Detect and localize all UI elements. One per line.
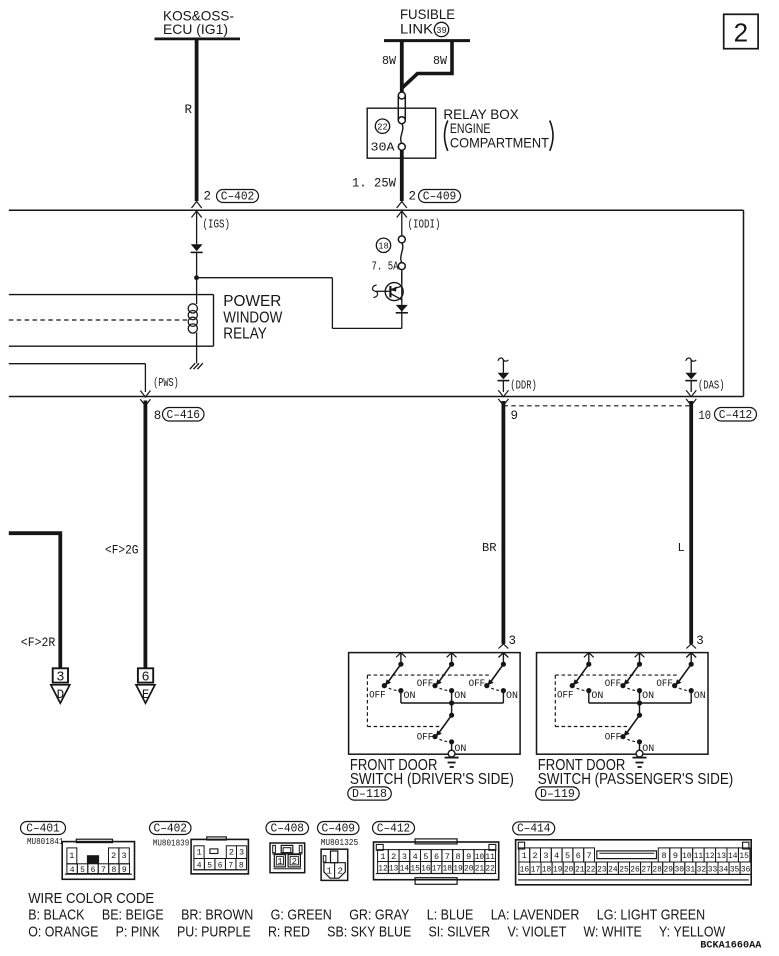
relay box name parentheses [445,121,554,151]
connector C-412 drawing [374,839,499,884]
joint connector D triangle [51,685,70,703]
svg-text:30A: 30A [371,141,396,155]
connector C-408 label [266,821,309,835]
svg-text:13: 13 [717,851,727,861]
svg-text:WINDOW: WINDOW [223,309,283,326]
fuse rating 7. 5A [372,260,400,274]
svg-text:18: 18 [443,864,453,874]
svg-text:C–412: C–412 [719,408,753,422]
diode D-DAS [685,373,697,381]
switch pole 3 blade [484,664,506,693]
wire relay coil to ground [196,346,198,363]
wire color label 8W right [433,54,448,68]
svg-text:11: 11 [694,851,704,861]
svg-text:30: 30 [675,864,685,874]
wire color code line 2 [28,923,726,940]
svg-text:OFF: OFF [469,679,486,690]
switch pole 1 OFF label [369,691,386,702]
svg-text:8: 8 [111,866,116,875]
fuse ref circled 22 [375,119,389,133]
svg-text:COMPARTMENT: COMPARTMENT [450,134,549,150]
fuse rating 30A [371,141,396,155]
relay box name text [443,106,549,151]
diode D-IGS [191,244,203,252]
switch stub 2 [635,653,645,667]
svg-text:10: 10 [699,408,712,423]
svg-text:4: 4 [554,851,559,861]
ground door switch case [633,758,647,767]
connector ref D-119 [536,787,580,801]
net label (DDR) [510,378,537,392]
svg-text:ON: ON [694,691,706,702]
svg-text:3: 3 [696,634,704,648]
fusible link element 39 [398,92,405,124]
svg-text:5: 5 [423,852,428,862]
wire pole 4 to case ground [636,742,643,757]
svg-text:9: 9 [466,852,471,862]
svg-text:4: 4 [70,866,75,875]
page number box 2 [724,14,758,48]
svg-text:(IODI): (IODI) [408,217,441,231]
svg-text:32: 32 [697,864,707,874]
wire transistor to diode [401,269,403,328]
switch pole 4 ON label [454,744,466,755]
joint pin box 6 [138,668,153,685]
junction arrow into driver switch [499,644,509,658]
svg-text:ON: ON [454,691,466,702]
svg-text:3: 3 [509,634,517,648]
svg-text:2: 2 [337,866,342,876]
svg-text:6: 6 [576,851,581,861]
svg-text:35: 35 [730,864,740,874]
svg-text:3: 3 [543,851,548,861]
svg-text:SWITCH (PASSENGER'S SIDE): SWITCH (PASSENGER'S SIDE) [538,771,734,788]
connector C-412 label [373,821,415,835]
switch pole 3 blade [672,664,694,693]
svg-text:1: 1 [522,851,527,861]
svg-text:2: 2 [204,190,212,204]
switch pole 3 ON label [506,691,518,702]
svg-text:1: 1 [196,847,201,857]
switch pole 1 blade [382,664,404,693]
wire to joint connector D (F-2R) [9,533,61,668]
wire color label 8W left [382,54,397,68]
svg-text:B: BLACK BE: BEIGE BR:: B: BLACK BE: BEIGE BR: BROWN G: GREEN GR… [28,907,705,924]
svg-text:POWER: POWER [223,293,281,310]
wire DDR squiggle inside ECU [498,358,509,373]
svg-text:20: 20 [564,864,574,874]
svg-text:31: 31 [686,864,696,874]
svg-text:8W: 8W [433,54,448,68]
svg-text:1: 1 [380,852,385,862]
svg-text:39: 39 [436,25,447,36]
svg-text:23: 23 [597,864,607,874]
svg-text:36: 36 [741,864,751,874]
ETACS-ECU box outline [9,210,744,396]
diode D-Q1 [396,305,408,313]
svg-text:6: 6 [91,866,96,875]
wire 8W parallel branch [403,41,453,88]
svg-text:8W: 8W [382,54,397,68]
svg-text:BCKA1660AA: BCKA1660AA [700,940,762,952]
svg-text:21: 21 [575,864,585,874]
wire KOS&OSS-ECU to pin 2 C-402 (R) [195,39,199,201]
transistor Q1 [373,283,404,301]
svg-text:D–119: D–119 [540,787,575,801]
svg-text:7: 7 [587,851,592,861]
switch pole 4 blade [620,703,642,744]
connector C-412 label (pin 10) [715,408,757,422]
svg-text:MU801841: MU801841 [27,837,64,847]
svg-text:OFF: OFF [605,733,622,744]
svg-text:9: 9 [122,866,127,875]
svg-text:7. 5A: 7. 5A [372,260,400,274]
pin 3 label driver switch [509,634,517,648]
net label (IODI) [408,217,441,231]
svg-text:3: 3 [402,852,407,862]
switch pole 4 OFF label [605,733,622,744]
connector C-402 part number MU801839 [153,838,190,848]
connector ref D-118 [348,787,392,801]
connector C-401 label [21,821,66,835]
svg-text:7: 7 [445,852,450,862]
svg-text:R: R [185,103,193,117]
joint pin box 3 [53,668,68,685]
svg-text:<F>2R: <F>2R [21,636,56,650]
net label (PWS) [153,376,179,390]
svg-text:5: 5 [80,866,85,875]
wire color code title [28,890,154,907]
svg-text:5: 5 [207,861,212,870]
switch stub 1 [396,653,406,667]
switch box outline D-119 [537,653,709,755]
connector C-414 drawing [516,840,752,885]
svg-text:33: 33 [708,864,718,874]
switch pole 2 blade [620,664,642,693]
switch stub 3 [686,653,696,667]
svg-text:12: 12 [378,864,388,874]
wire DDR diode to pin [502,381,504,393]
relay coil L1 [188,295,197,347]
switch box outline D-118 [349,653,520,755]
wire PWS to joint connector E (F-2G) [143,401,147,669]
svg-text:18: 18 [378,241,389,252]
svg-text:10: 10 [475,852,485,862]
svg-text:6: 6 [142,671,150,686]
wire label <F>2G [105,543,139,557]
svg-text:17: 17 [531,864,541,874]
drawing number BCKA1660AA [700,940,762,952]
svg-text:1: 1 [69,851,74,861]
switch pole 1 blade [570,664,592,693]
switch name D-119 [538,757,734,788]
connector C-416 label [163,408,205,422]
svg-text:22: 22 [586,864,596,874]
connector C-409 part number MU801325 [321,838,359,848]
node junction A [194,275,199,280]
wire color label R [185,103,193,117]
svg-text:7: 7 [101,866,106,875]
svg-text:ON: ON [642,691,654,702]
svg-text:6: 6 [434,852,439,862]
svg-text:7: 7 [228,861,233,870]
connector C-401 part number MU801841 [27,837,64,847]
svg-text:(DAS): (DAS) [698,378,725,392]
svg-text:ECU (IG1): ECU (IG1) [163,21,228,37]
switch pole 2 OFF label [605,679,622,690]
wire fuse 18 to transistor Q1 [401,269,403,283]
fusible link ref circled 39 [434,22,448,36]
svg-text:C–402: C–402 [221,189,255,203]
connector C-402 drawing [191,837,248,874]
junction arrow into ECU (IGS) [192,202,202,218]
svg-text:18: 18 [542,864,552,874]
switch stub 2 [447,653,457,667]
svg-text:BR: BR [482,541,497,555]
wire color label L [678,541,685,555]
svg-text:C–402: C–402 [154,821,188,835]
switch stub 3 [499,653,509,667]
connector C-408 drawing [270,843,305,873]
diode D-DDR [498,373,510,381]
wire relay box to pin 2 C-409 (1.25W) [400,150,404,201]
svg-text:3: 3 [122,851,127,861]
svg-text:OFF: OFF [656,679,673,690]
wire diode to junction [196,252,198,294]
svg-text:15: 15 [739,851,749,861]
svg-text:19: 19 [553,864,563,874]
switch pole 2 blade [432,664,454,693]
wire color code line 1 [28,907,705,924]
svg-text:D–118: D–118 [352,787,387,801]
svg-text:MU801325: MU801325 [321,838,359,848]
svg-text:OFF: OFF [369,691,386,702]
connector C-401 drawing [62,839,134,879]
power window relay name [223,293,283,343]
switch pole 3 OFF label [469,679,486,690]
wire DAS squiggle inside ECU [686,358,697,373]
wire size label 1. 25W [352,177,396,191]
svg-text:16: 16 [520,864,530,874]
wire pole 4 to case ground [448,742,455,757]
svg-text:1. 25W: 1. 25W [352,177,396,191]
svg-text:15: 15 [410,864,420,874]
svg-text:(PWS): (PWS) [153,376,179,390]
svg-text:21: 21 [475,864,485,874]
svg-text:12: 12 [705,851,715,861]
wire IODI inside ECU [401,210,403,236]
svg-text:C–409: C–409 [423,189,457,203]
switch ON bus wire [589,691,691,706]
svg-text:13: 13 [389,864,399,874]
power window relay box [9,295,214,347]
svg-text:34: 34 [719,864,729,874]
svg-text:OFF: OFF [417,679,434,690]
wire DAS diode to pin [690,381,692,393]
svg-text:(IGS): (IGS) [203,217,231,231]
connector C-409 drawing [321,849,348,880]
connector C-402 label [217,189,259,203]
node fusible link bus bar [384,39,470,42]
switch pole 4 OFF label [417,733,434,744]
connector C-409 label [419,189,461,203]
svg-text:20: 20 [464,864,474,874]
switch ON bus wire [401,691,504,706]
switch pole 3 ON label [694,691,706,702]
wire junction A to transistor branch [197,278,402,329]
switch pole 2 ON label [642,691,654,702]
wire 9 to driver door switch (BR) [501,401,505,644]
svg-text:<F>2G: <F>2G [105,543,139,557]
svg-text:OFF: OFF [605,679,622,690]
ground relay coil [190,363,203,369]
svg-text:14: 14 [728,851,738,861]
net label (IGS) [203,217,231,231]
svg-text:ON: ON [506,691,518,702]
switch stub 1 [584,653,594,667]
svg-text:C–408: C–408 [271,821,305,835]
svg-text:OFF: OFF [417,733,434,744]
wire PWS inside ECU [9,364,146,392]
svg-text:6: 6 [218,861,223,870]
svg-text:25: 25 [619,864,629,874]
svg-text:MU801839: MU801839 [153,838,190,848]
svg-text:14: 14 [400,864,410,874]
pin 2 label [204,190,212,204]
junction arrow out of ECU (DDR) [498,390,508,405]
svg-text:5: 5 [565,851,570,861]
svg-text:ON: ON [642,744,654,755]
fuse ref circled 18 [376,238,390,252]
relay contact dashed link [9,319,188,321]
junction arrow into passenger switch [686,644,696,658]
svg-text:28: 28 [652,864,662,874]
svg-text:11: 11 [485,852,495,862]
svg-text:19: 19 [453,864,463,874]
switch pole 1 ON label [591,691,603,702]
junction arrow out of ECU (PWS) [140,391,150,406]
connector C-414 label [513,822,555,836]
svg-text:22: 22 [377,122,388,133]
svg-text:LINK: LINK [400,21,434,37]
switch pole 1 ON label [404,691,416,702]
switch pole 2 OFF label [417,679,434,690]
svg-text:2: 2 [533,851,538,861]
svg-text:26: 26 [630,864,640,874]
relay box (engine compartment) outline [367,108,436,158]
svg-text:4: 4 [197,861,202,870]
mechanical link dashed line [555,675,678,726]
switch pole 2 ON label [454,691,466,702]
svg-text:C–409: C–409 [322,821,356,835]
mechanical link dashed line [367,675,490,726]
svg-text:RELAY: RELAY [223,326,267,343]
svg-text:C–414: C–414 [517,822,551,836]
wire fusible link main drop (8W) [400,41,404,92]
svg-text:D: D [57,688,65,702]
svg-text:1: 1 [277,857,282,867]
svg-text:22: 22 [485,864,495,874]
connector C-412 dashed span [503,405,691,407]
junction arrow into ECU (IODI) [397,202,407,218]
svg-text:4: 4 [413,852,418,862]
svg-text:3: 3 [239,847,244,857]
net label (DAS) [698,378,725,392]
svg-text:2: 2 [292,857,297,867]
svg-text:9: 9 [511,409,519,423]
wire label <F>2R [21,636,56,650]
joint connector E triangle [136,685,155,703]
svg-text:10: 10 [682,851,692,861]
connector C-402 label [150,821,192,835]
svg-text:2: 2 [111,851,116,861]
pin 2 label (C-409) [409,190,417,204]
ground door switch case [445,758,459,767]
svg-text:ON: ON [404,691,416,702]
node KOS&OSS-ECU (IG1) label [163,7,234,37]
svg-text:8: 8 [239,861,244,870]
svg-text:SWITCH (DRIVER'S SIDE): SWITCH (DRIVER'S SIDE) [350,771,514,788]
connector C-409 label [318,821,360,835]
svg-text:WIRE COLOR CODE: WIRE COLOR CODE [28,890,154,907]
svg-text:1: 1 [326,866,331,876]
svg-text:8: 8 [455,852,460,862]
switch name D-118 [350,757,514,788]
switch pole 1 OFF label [557,691,574,702]
svg-text:ON: ON [591,691,603,702]
svg-text:16: 16 [421,864,431,874]
node KOS&OSS-ECU bus bar [155,38,241,41]
svg-text:27: 27 [641,864,651,874]
svg-text:29: 29 [663,864,673,874]
svg-text:C–412: C–412 [377,821,411,835]
svg-text:2: 2 [391,852,396,862]
svg-text:2: 2 [409,190,417,204]
svg-text:2: 2 [229,847,234,857]
svg-text:17: 17 [432,864,442,874]
svg-text:O: ORANGE P: PINK PU:: O: ORANGE P: PINK PU: PURPLE R: RED SB: … [28,923,726,940]
pin 3 label passenger switch [696,634,704,648]
node FUSIBLE LINK label [400,6,455,36]
wire IGS inside ECU [196,210,198,244]
svg-text:8: 8 [661,851,666,861]
wire color label BR [482,541,497,555]
svg-text:E: E [142,688,150,702]
svg-text:C–401: C–401 [26,821,60,835]
svg-text:L: L [678,541,685,555]
svg-text:2: 2 [734,18,748,48]
svg-text:9: 9 [673,851,678,861]
svg-text:24: 24 [608,864,618,874]
pin 9 label [511,409,519,423]
fuse element 22 (30A) [398,124,405,151]
svg-text:OFF: OFF [557,691,574,702]
svg-text:8: 8 [154,409,162,423]
pin 8 label [154,409,162,423]
switch pole 3 OFF label [656,679,673,690]
switch pole 4 ON label [642,744,654,755]
wire 10 to passenger door switch (L) [689,401,693,644]
junction arrow out of ECU (DAS) [686,390,696,405]
svg-text:C–416: C–416 [167,408,201,422]
svg-text:ON: ON [454,744,466,755]
switch pole 4 blade [432,703,454,744]
svg-text:(DDR): (DDR) [510,378,537,392]
svg-text:3: 3 [56,671,64,686]
fuse element 18 (7.5A) [398,236,405,270]
pin 10 label [699,408,712,423]
